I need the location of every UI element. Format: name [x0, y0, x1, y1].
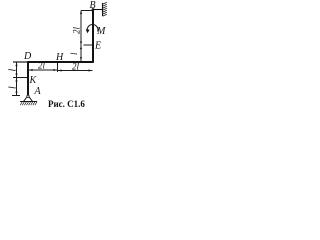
- svg-text:2l: 2l: [38, 61, 46, 71]
- top dimension 2l (D to H): [29, 69, 58, 71]
- svg-text:l: l: [8, 86, 19, 89]
- right dimension line l (E to corner): [80, 45, 82, 61]
- svg-text:l: l: [8, 69, 19, 72]
- pin support triangle at A: [24, 96, 33, 102]
- svg-text:M: M: [96, 26, 106, 37]
- ground line: [20, 101, 37, 103]
- moment arrowhead: [86, 29, 90, 33]
- pin circle: [27, 95, 29, 97]
- svg-text:2l: 2l: [72, 27, 82, 35]
- wall hatching: [103, 2, 107, 16]
- tick at E: [84, 44, 93, 46]
- right dimension line 2l (B to E): [81, 11, 92, 46]
- moment M arc: [87, 24, 98, 32]
- top dimension 2l (H to corner): [58, 70, 93, 72]
- svg-text:E: E: [94, 41, 101, 52]
- svg-text:B: B: [90, 0, 96, 11]
- svg-text:l: l: [69, 52, 79, 55]
- tick at H: [57, 63, 59, 72]
- hinge dot at B: [92, 8, 95, 11]
- wall line: [102, 3, 104, 16]
- support rod B to wall: [93, 9, 103, 11]
- left dimension ticks: [12, 62, 27, 96]
- svg-text:A: A: [34, 86, 42, 97]
- frame member A-D-corner-B: [27, 9, 94, 96]
- svg-text:2l: 2l: [72, 62, 80, 72]
- svg-text:H: H: [55, 52, 64, 63]
- svg-text:D: D: [23, 51, 32, 62]
- svg-text:Рис. С1.6: Рис. С1.6: [48, 99, 85, 109]
- svg-text:K: K: [29, 75, 38, 86]
- ground hatching: [20, 102, 37, 106]
